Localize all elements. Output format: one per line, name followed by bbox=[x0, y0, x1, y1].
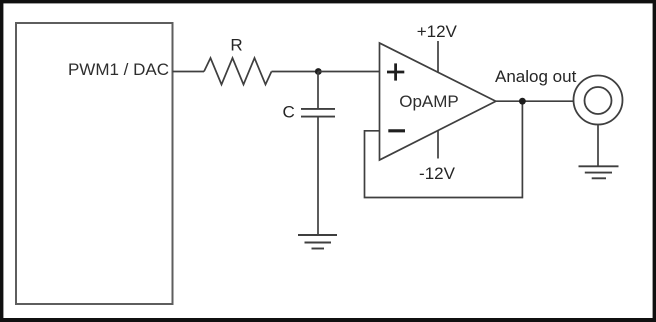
svg-text:Analog out: Analog out bbox=[495, 67, 577, 86]
svg-text:R: R bbox=[230, 36, 242, 55]
wire connector J1 to ground bbox=[597, 125, 599, 167]
wire op-amp output to connector bbox=[496, 100, 574, 102]
node A junction dot bbox=[315, 68, 322, 75]
svg-text:+12V: +12V bbox=[417, 22, 458, 41]
svg-text:-12V: -12V bbox=[419, 164, 456, 183]
wire resistor R to node A bbox=[272, 71, 319, 73]
wire node A to op-amp + input bbox=[318, 71, 380, 73]
svg-text:C: C bbox=[282, 102, 294, 121]
svg-text:OpAMP: OpAMP bbox=[399, 92, 459, 111]
block PWM1/DAC box bbox=[16, 23, 173, 304]
connector J1 outer ring bbox=[574, 76, 623, 125]
wire node A to capacitor C bbox=[317, 72, 319, 109]
ground (below connector J1) bbox=[579, 166, 619, 178]
node B junction dot bbox=[519, 98, 526, 105]
ground (below capacitor C) bbox=[298, 235, 337, 249]
op-amp - input symbol bbox=[388, 129, 405, 132]
-12V supply wire bbox=[437, 131, 439, 159]
wire box output to resistor R bbox=[173, 71, 205, 73]
feedback wire output node B to - input bbox=[365, 101, 523, 197]
wire capacitor C to ground bbox=[317, 117, 319, 235]
+12V supply wire bbox=[437, 41, 439, 72]
svg-text:PWM1 / DAC: PWM1 / DAC bbox=[68, 60, 169, 79]
connector J1 inner ring bbox=[585, 87, 612, 114]
op-amp U1 triangle bbox=[380, 43, 496, 160]
resistor R bbox=[204, 58, 272, 85]
capacitor C plates bbox=[301, 109, 335, 117]
op-amp + input symbol bbox=[387, 63, 404, 80]
